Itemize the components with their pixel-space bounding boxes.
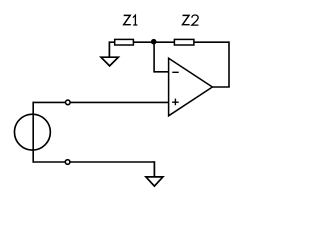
wire: source bottom to ground corner	[33, 161, 154, 163]
terminal node (bottom)	[65, 160, 70, 165]
wire: source top to non-inverting input	[33, 101, 168, 103]
op-amp minus symbol	[172, 71, 178, 73]
source V1 (circle with vertical bar)	[14, 102, 50, 163]
op-amp plus symbol	[172, 99, 179, 106]
ground (bottom)	[146, 161, 163, 186]
wire: feedback vertical (right side)	[228, 41, 230, 87]
wire: Z2 right to feedback corner	[194, 41, 229, 43]
wire: junction down to inverting input	[154, 42, 169, 72]
wire: op-amp output to feedback	[212, 86, 229, 88]
wire: ground stub to Z1 left	[109, 41, 115, 43]
label Z2	[183, 15, 199, 25]
resistor Z1	[115, 39, 134, 45]
resistor Z2	[174, 39, 194, 45]
wire: Z1 right to Z2 left	[133, 41, 174, 43]
junction dot (node between Z1 and Z2)	[151, 39, 157, 45]
ground (top-left)	[101, 41, 118, 66]
label Z1	[124, 15, 138, 25]
op-amp U1	[169, 58, 213, 116]
terminal node (top)	[66, 100, 71, 105]
